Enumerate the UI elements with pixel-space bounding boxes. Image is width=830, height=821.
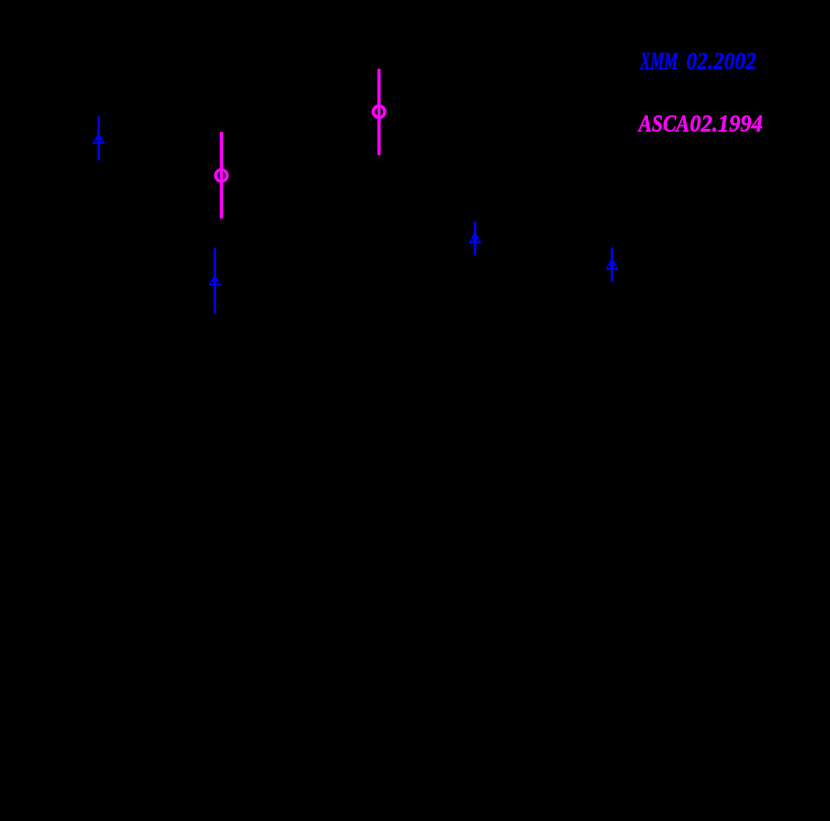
svg-text:02.1994: 02.1994	[690, 111, 763, 138]
svg-text:XMM: XMM	[639, 49, 678, 75]
svg-text:ASCA: ASCA	[637, 110, 690, 137]
svg-text:02.2002: 02.2002	[686, 48, 756, 74]
